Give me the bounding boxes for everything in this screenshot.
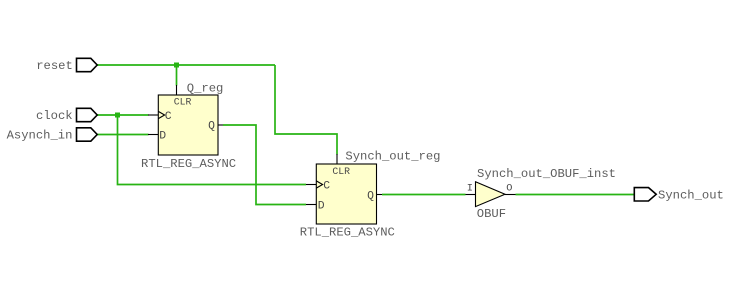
Q_reg clock wedge: [158, 111, 164, 118]
Q_reg pin label Q: [208, 121, 215, 133]
input port Asynch_in: [7, 128, 98, 143]
Q_reg pin stub D: [148, 134, 158, 136]
svg-text:C: C: [165, 111, 172, 123]
svg-text:CLR: CLR: [332, 166, 350, 177]
svg-text:D: D: [318, 201, 325, 213]
svg-text:CLR: CLR: [174, 97, 192, 108]
Synch_out_reg pin label CLR: [332, 166, 350, 177]
Synch_out_reg pin label Q: [367, 190, 374, 202]
svg-text:Q: Q: [208, 121, 215, 133]
wire reset net: right segment down to Synch_out_reg CLR: [275, 65, 337, 155]
Synch_out_reg clock wedge: [316, 181, 322, 188]
svg-text:O: O: [506, 182, 512, 194]
Q_reg pin stub C: [148, 114, 158, 116]
Q_reg pin label C: [165, 111, 172, 123]
wire Asynch_in net: port to Q_reg D: [97, 134, 148, 136]
svg-text:D: D: [159, 131, 166, 143]
svg-text:Asynch_in: Asynch_in: [7, 129, 73, 143]
wire clock net: port to Q_reg C: [97, 114, 148, 116]
wire reset net: junction down to Q_reg CLR: [176, 65, 178, 86]
svg-text:Synch_out_reg: Synch_out_reg: [345, 149, 440, 163]
OBUF pin label I: [467, 182, 473, 194]
OBUF instance label Synch_out_OBUF_inst: [477, 167, 616, 181]
svg-text:RTL_REG_ASYNC: RTL_REG_ASYNC: [300, 226, 395, 240]
Synch_out_reg pin stub C: [306, 184, 316, 186]
buffer U3 OBUF body: [476, 182, 506, 207]
wire reset net: port to corner: [97, 64, 275, 66]
OBUF pin label O: [506, 182, 512, 194]
flip-flop U1 Q_reg body: [158, 95, 218, 155]
svg-text:reset: reset: [36, 59, 73, 73]
wire Q_reg Q to Synch_out_reg D: [223, 125, 306, 205]
Synch_out_reg pin stub Q: [377, 194, 383, 196]
wire clock net: junction down and right to Synch_out_reg C: [118, 115, 307, 185]
junction on clock net: [115, 113, 120, 118]
svg-text:clock: clock: [36, 109, 73, 123]
Q_reg pin label D: [159, 131, 166, 143]
Synch_out_reg type label RTL_REG_ASYNC: [300, 226, 395, 240]
svg-text:Q_reg: Q_reg: [187, 82, 224, 96]
Q_reg pin stub Q: [218, 124, 223, 126]
junction on reset net: [174, 63, 179, 68]
Synch_out_reg pin stub CLR: [336, 154, 338, 164]
Q_reg type label RTL_REG_ASYNC: [141, 157, 236, 171]
svg-text:Synch_out_OBUF_inst: Synch_out_OBUF_inst: [477, 167, 616, 181]
OBUF type label: [477, 207, 506, 221]
Synch_out_reg pin stub D: [306, 204, 316, 206]
Q_reg pin stub CLR: [176, 85, 178, 95]
wire Synch_out_reg Q to OBUF input: [382, 194, 466, 196]
wire OBUF output to port Synch_out: [516, 194, 635, 196]
Synch_out_reg pin label C: [323, 181, 330, 193]
OBUF pin stub O: [505, 194, 516, 196]
Synch_out_reg pin label D: [318, 201, 325, 213]
Q_reg pin label CLR: [174, 97, 192, 108]
svg-text:I: I: [467, 182, 473, 194]
OBUF pin stub I: [466, 194, 476, 196]
input port reset: [36, 58, 97, 73]
Synch_out_reg instance label: [345, 149, 440, 163]
svg-text:C: C: [323, 181, 330, 193]
output port Synch_out: [634, 188, 724, 203]
svg-text:Q: Q: [367, 190, 374, 202]
svg-text:Synch_out: Synch_out: [658, 188, 724, 202]
svg-text:OBUF: OBUF: [477, 207, 506, 221]
svg-text:RTL_REG_ASYNC: RTL_REG_ASYNC: [141, 157, 236, 171]
Q_reg instance label: [187, 82, 224, 96]
input port clock: [36, 108, 97, 123]
flip-flop U2 Synch_out_reg body: [316, 164, 376, 224]
